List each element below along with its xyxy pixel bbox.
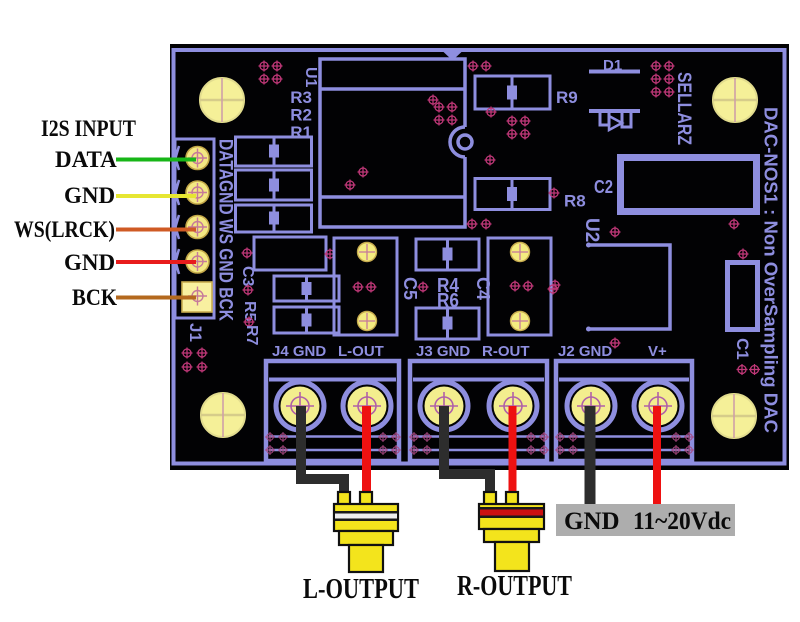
board top notch marker bbox=[443, 52, 462, 61]
PCB board body bbox=[170, 44, 789, 470]
resistor R1 body bbox=[236, 137, 312, 166]
terminal block J4 bbox=[266, 361, 399, 461]
mounting hole top-right bbox=[713, 78, 757, 122]
IC U1 outline bbox=[320, 59, 465, 227]
wire BCK (brown) bbox=[116, 296, 196, 300]
vias inside C4 bbox=[510, 281, 534, 292]
D1 underline bbox=[589, 70, 640, 74]
via left of R4 bbox=[418, 282, 429, 293]
svg-text:U2: U2 bbox=[581, 218, 602, 242]
wire GND2 (red) bbox=[116, 260, 196, 264]
svg-text:DATA: DATA bbox=[55, 147, 117, 172]
wire R signal (red) bbox=[509, 406, 517, 494]
vias below C1 bbox=[737, 364, 761, 375]
vias inside C5 bbox=[353, 282, 377, 293]
svg-text:GND: GND bbox=[64, 250, 115, 275]
via right of C3 bbox=[325, 249, 336, 260]
via below C3 label bbox=[243, 285, 254, 296]
svg-text:J3 GND: J3 GND bbox=[416, 343, 470, 360]
wire L ground (black) bbox=[301, 406, 344, 494]
svg-text:R8: R8 bbox=[564, 192, 586, 211]
svg-text:C5: C5 bbox=[400, 277, 420, 300]
resistor R9 body bbox=[475, 76, 550, 109]
svg-text:C4: C4 bbox=[473, 277, 493, 300]
RCA L white band bbox=[335, 511, 397, 521]
capacitor C2 body bbox=[621, 158, 757, 212]
resistor R8 body bbox=[475, 179, 550, 210]
resistor R3 body bbox=[236, 205, 312, 232]
via above J2 bbox=[610, 338, 621, 349]
mounting hole bottom-right bbox=[712, 394, 756, 438]
vias inside U1 bbox=[345, 95, 458, 191]
svg-text:BCK: BCK bbox=[72, 285, 117, 310]
via cluster left of U1 bbox=[259, 61, 283, 85]
via left of C3 bbox=[242, 248, 253, 259]
vias above R9 bbox=[468, 61, 492, 72]
J1 pin 1 pad (DATA) bbox=[186, 147, 209, 170]
svg-text:11~20Vdc: 11~20Vdc bbox=[633, 508, 731, 535]
capacitor C3 body bbox=[254, 237, 326, 270]
diode D1 symbol bbox=[589, 111, 640, 130]
svg-text:R1: R1 bbox=[290, 123, 312, 142]
RCA jack R bbox=[479, 492, 544, 571]
via near U2 bbox=[610, 227, 621, 238]
via left of U2 bottom bbox=[550, 280, 561, 291]
wire R ground (black) bbox=[444, 406, 490, 494]
terminal block J2 bbox=[556, 361, 692, 461]
resistor R6 body bbox=[416, 308, 479, 339]
IC U2 outline bbox=[586, 243, 670, 332]
wire power V+ (red) bbox=[653, 406, 661, 506]
svg-text:R3: R3 bbox=[290, 88, 312, 107]
via right of C2 bbox=[729, 219, 740, 230]
svg-text:R7: R7 bbox=[243, 325, 260, 346]
board silkscreen border bbox=[174, 50, 785, 464]
connector J1 outline bbox=[175, 139, 214, 318]
capacitor C1 body bbox=[728, 263, 758, 330]
RCA R red band bbox=[480, 507, 543, 518]
U1 pin1 notch bbox=[450, 127, 472, 157]
via above R8 bbox=[485, 155, 496, 166]
J3 mount vias bbox=[409, 432, 549, 455]
mounting hole bottom-left bbox=[201, 393, 245, 437]
svg-text:U1: U1 bbox=[302, 67, 319, 88]
J1 pin 2 pad (GND) bbox=[186, 181, 209, 204]
resistor R4 body bbox=[416, 239, 479, 270]
J4 mount vias bbox=[265, 432, 401, 455]
vias below R8 bbox=[467, 219, 492, 230]
svg-text:R-OUTPUT: R-OUTPUT bbox=[457, 571, 572, 602]
J1 pin 3 pad (WS) bbox=[186, 216, 209, 239]
svg-text:J2 GND: J2 GND bbox=[558, 343, 612, 360]
svg-text:DATAGND WS GND BCK: DATAGND WS GND BCK bbox=[215, 139, 236, 321]
via column right of D1 bbox=[651, 61, 675, 98]
svg-text:GND: GND bbox=[64, 183, 115, 208]
svg-text:SELLARZ: SELLARZ bbox=[673, 72, 694, 145]
via cluster below R9 bbox=[507, 116, 531, 140]
svg-text:I2S INPUT: I2S INPUT bbox=[41, 116, 136, 141]
svg-text:DAC-NOS1 : Non OverSampling DA: DAC-NOS1 : Non OverSampling DAC bbox=[761, 107, 781, 433]
svg-text:R9: R9 bbox=[556, 88, 578, 107]
svg-text:V+: V+ bbox=[648, 343, 667, 360]
mounting hole top-left bbox=[200, 78, 244, 122]
svg-text:WS(LRCK): WS(LRCK) bbox=[14, 217, 115, 242]
svg-text:C1: C1 bbox=[733, 338, 752, 360]
via below R9 bbox=[486, 107, 497, 118]
svg-text:C3: C3 bbox=[239, 266, 256, 287]
terminal block J3 bbox=[410, 361, 547, 461]
svg-text:R2: R2 bbox=[290, 106, 312, 125]
via above C1 bbox=[738, 249, 749, 260]
RCA jack L bbox=[334, 492, 398, 572]
wire power ground (black) bbox=[585, 406, 596, 506]
svg-text:J1: J1 bbox=[186, 323, 205, 342]
wire WS (orange) bbox=[116, 228, 196, 232]
svg-text:L-OUT: L-OUT bbox=[338, 343, 384, 360]
wire DATA (green) bbox=[116, 158, 196, 162]
via below R5 label bbox=[244, 317, 255, 328]
svg-text:GND: GND bbox=[564, 508, 620, 535]
resistor R7 body bbox=[274, 307, 339, 333]
wire GND1 (yellow) bbox=[116, 194, 196, 198]
capacitor C4 body bbox=[488, 238, 551, 335]
J1 pin 4 pad (GND) bbox=[186, 250, 209, 273]
J1 pin 5 square pad (BCK) bbox=[182, 282, 212, 312]
via right of C4 bbox=[548, 284, 559, 295]
resistor R5 body bbox=[274, 276, 339, 301]
svg-text:R-OUT: R-OUT bbox=[482, 343, 530, 360]
svg-text:L-OUTPUT: L-OUTPUT bbox=[303, 574, 419, 605]
via left of R8 label bbox=[549, 188, 560, 199]
capacitor C5 body bbox=[334, 238, 397, 335]
J2 mount vias bbox=[555, 432, 694, 455]
via cluster bottom-left of board bbox=[182, 348, 208, 373]
power label box bbox=[556, 504, 735, 536]
wire L signal (red) bbox=[362, 406, 371, 494]
svg-text:C2: C2 bbox=[594, 177, 613, 197]
resistor R2 body bbox=[236, 170, 312, 200]
svg-text:J4 GND: J4 GND bbox=[272, 343, 326, 360]
